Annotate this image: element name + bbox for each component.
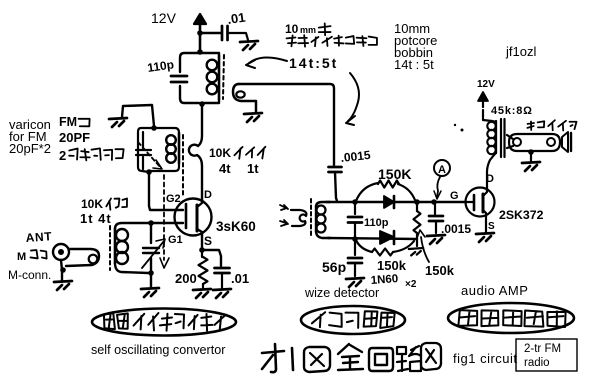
value label 110p (oscillator) [146,57,174,75]
label S (3sK60) [204,234,212,248]
svg-text:12V: 12V [151,10,177,26]
core dashed line (tank coil) [182,135,184,196]
wire ground to varicon box [122,105,154,126]
label D (3sK60) [204,189,212,201]
svg-text:10K: 10K [209,146,231,160]
svg-text:110p: 110p [364,217,389,229]
svg-text:150k: 150k [377,258,407,273]
top rail (detector) [326,201,466,203]
ground (source resistor) [193,284,211,298]
node junction source [199,247,205,253]
wire varicon to FET gate2 [149,172,183,210]
M connector (coax) [53,244,69,260]
dashed gang line with arrow [160,175,169,268]
svg-text:wize detector: wize detector [304,286,379,300]
capacitor .0015 (AF filter) [429,202,443,233]
svg-text:10K: 10K [81,197,103,211]
coax stub loop [66,249,99,266]
label G (2SK372) [450,190,459,202]
ground (source bypass cap) [213,273,231,298]
svg-text:20pF*2: 20pF*2 [9,141,51,156]
varicon symbol (input tuning cap) [142,239,165,268]
capacitor 110p (detector) [348,202,362,239]
svg-text:G: G [450,190,459,202]
typed label 10mm potcore bobbin 14t:5t [394,21,437,72]
value label .0015 (AF) [441,222,471,236]
wire connector to ground [61,260,62,280]
ground (2SK372 source) [476,233,494,242]
capacitor 56p [348,239,362,276]
label D (2SK372) [486,173,494,185]
svg-text:14t : 5t: 14t : 5t [394,57,434,72]
capacitor C-bypass .01 [222,26,228,40]
oval label audio amp (kana) [448,303,574,333]
detector secondary + frame [316,202,330,238]
svg-text:.0015: .0015 [340,148,372,165]
node junction right 150k top [414,199,420,205]
coil L1 secondary 1-turn (to mixer line) [233,84,256,112]
ground (input tank) [141,273,159,297]
svg-text:×2: ×2 [405,279,417,290]
oval label wize detector (kana) [301,306,405,334]
coil detector secondary (3 loops) [316,206,326,233]
svg-text:4t: 4t [219,161,231,176]
svg-text:12V: 12V [477,79,495,90]
varicon box (oscillator) [138,128,179,172]
svg-text:S: S [488,221,495,232]
wire headphone to ground [528,149,534,161]
svg-text:self oscillating convertor: self oscillating convertor [91,343,225,357]
handwritten 4t 1t [219,161,259,176]
value label .01 (bypass) [226,10,246,27]
arrow from 14t label to osc coil [246,57,287,68]
svg-text:200: 200 [175,271,197,286]
label G1 [168,234,183,246]
typed label M-conn. [8,268,51,282]
handwritten 10K bobbin (oscillator) [209,146,265,160]
wire source to bypass cap [202,250,221,266]
node junction varicon bottom [146,169,152,175]
power 12V arrow (audio) [477,79,495,120]
resistor 150k (vertical, detector load) [414,202,421,246]
svg-text:10: 10 [285,22,299,36]
svg-text:150K: 150K [378,166,411,182]
svg-text:M-conn.: M-conn. [8,268,51,282]
core dashed line (antenna coil) [109,226,111,270]
box 2-tr FM radio [516,339,577,371]
wire 12V to bypass cap [200,32,221,34]
svg-text:radio: radio [524,357,550,369]
svg-text:1t: 1t [247,161,259,176]
value label 150k (bottom) [377,258,407,273]
handwritten 45k:8ohm [491,105,533,117]
svg-text:56p: 56p [322,259,346,275]
ground (headphone) [522,162,540,171]
node junction connector ground [60,267,66,273]
svg-text:mm: mm [300,25,316,35]
node junction detector output [431,199,437,205]
svg-text:1N60: 1N60 [370,273,398,287]
handwritten 10K bobbin (input) [81,197,127,211]
wire coupling cap to detector rail [335,172,337,201]
svg-text:45k:8Ω: 45k:8Ω [491,105,533,117]
handwritten FM-yo label [59,115,90,129]
ground (osc varicon top) [109,118,127,127]
ground (vertical 150k) [409,248,423,255]
value label 110p (detector) [364,217,389,229]
wire osc secondary to detector [238,84,334,165]
output transformer primary (4 loops) [483,120,496,155]
node junction varicon top [151,125,157,131]
typed label wize detector [304,286,379,300]
value label 150K (top) [378,166,411,182]
arrow from 5t label to detector wire [346,73,359,125]
svg-text:2SK372: 2SK372 [499,208,544,222]
value label 200 [175,271,197,286]
value label .01 (source) [231,271,249,286]
svg-text:fig1 circuit: fig1 circuit [453,351,518,366]
coil antenna tank (3 loops) [115,229,128,264]
node junction 110p top [352,199,358,205]
diode D2 1N60 (bottom) [380,231,394,244]
node junction tank top [197,49,203,55]
handwritten 3sK60 [216,219,256,234]
value label 1N60x2 [370,273,416,290]
handwritten ANT [25,229,52,245]
handwritten 2SK372 [499,208,544,222]
handwritten M-connector kana [17,250,47,263]
typed label 12V supply [151,10,177,26]
output transformer core [501,119,505,157]
svg-text:150k: 150k [425,263,455,278]
bottom rail (detector) [328,238,417,239]
svg-text:3sK60: 3sK60 [216,219,256,234]
wire drain to output transformer [487,155,494,189]
resistor 200 ohm (source bias) [199,250,208,284]
diode D1 1N60 (top) [384,196,394,208]
coil L1 primary (osc, 3 loops) [207,56,219,99]
handwritten 14t:5t [289,55,338,71]
label G2 [166,193,181,205]
value label 56p [322,259,346,275]
wire source to bias network [201,236,203,250]
coil L-osc-tank (3 loops right side) [166,133,179,163]
svg-text:G2: G2 [166,193,181,205]
ground (56p) [346,278,364,287]
typed label jf1ozl [505,44,536,59]
svg-text:audio AMP: audio AMP [461,283,528,298]
headphone (oval + drivers) [507,132,571,152]
wire source to ground (2SK372) [485,216,487,232]
typed label fig1 circuit [453,351,518,366]
coupling arrows (osc to detector) [280,205,288,226]
svg-text:1t 4t: 1t 4t [80,211,112,226]
ground (bypass cap) [240,41,258,50]
svg-text:S: S [204,234,212,248]
resistor 150k bottom arc [356,240,414,256]
node A (circled, detector side) [434,160,450,199]
handwritten 1t 4t [80,211,112,226]
node junction input tank top [148,220,154,226]
input tank wiring [115,223,151,273]
svg-text:.01: .01 [231,271,249,286]
handwritten 20PF [59,130,90,145]
typed label varicon for FM 20pF*2 [9,117,51,156]
node junction 12V bypass [197,30,203,36]
ink specks [454,124,464,132]
value label .0015 (coupling) [340,148,372,165]
svg-text:14t:5t: 14t:5t [289,55,338,71]
svg-text:2-tr FM: 2-tr FM [524,343,561,355]
typed label audio AMP [461,283,528,298]
svg-text:ANT: ANT [25,229,52,245]
handwritten 2-ren varicon [59,148,124,163]
oval label self-oscillating converter [92,309,236,336]
detector input coil primary [291,210,306,226]
capacitor .01 (source bypass) [215,268,230,273]
svg-text:G1: G1 [168,234,183,246]
wire bypass cap to ground [228,33,248,40]
ground (osc secondary) [244,113,262,122]
capacitor .0015 (coupling) [329,167,342,172]
svg-text:A: A [438,164,446,176]
svg-text:M: M [17,251,26,263]
oscillator tank wiring [180,53,219,103]
value label 150k (vertical) [425,263,455,278]
capacitor 110p (oscillator tank) [171,76,187,82]
svg-text:2: 2 [59,148,66,163]
varicon symbol (oscillator tuning cap) [136,132,162,169]
transistor Q2 2SK372 (FET) [466,188,495,218]
svg-text:.01: .01 [226,10,246,27]
svg-text:20PF: 20PF [59,130,90,145]
core dashed line (osc coil) [223,55,224,99]
resistor 150K top arc [356,181,415,202]
node junction input tank bottom [148,270,154,276]
arrow 150k label to resistor [417,230,429,262]
node junction tank bottom [199,101,205,107]
ground (AF filter cap) [427,235,445,244]
svg-text:jf1ozl: jf1ozl [505,44,536,59]
svg-text:110p: 110p [146,57,174,75]
handwritten headphone kana [527,120,576,130]
node junction 110p bottom [352,236,358,242]
ground (antenna) [54,281,72,290]
handwritten title fig1 complete circuit (part1) [262,343,441,372]
wire drain to tank (with 1t loop) [189,104,202,199]
typed label self oscillating convertor [91,343,225,357]
label S (2SK372) [488,221,495,232]
core dashed line (detector transformer) [310,199,312,236]
handwritten 10mm bobbin note [285,22,331,36]
power 12V arrow (converter) [194,14,206,53]
transistor Q1 3sK60 (dual-gate FET) [151,199,212,237]
svg-text:D: D [204,189,212,201]
svg-text:FM: FM [59,115,77,129]
handwritten katakana potcore-bobbin [287,35,377,46]
